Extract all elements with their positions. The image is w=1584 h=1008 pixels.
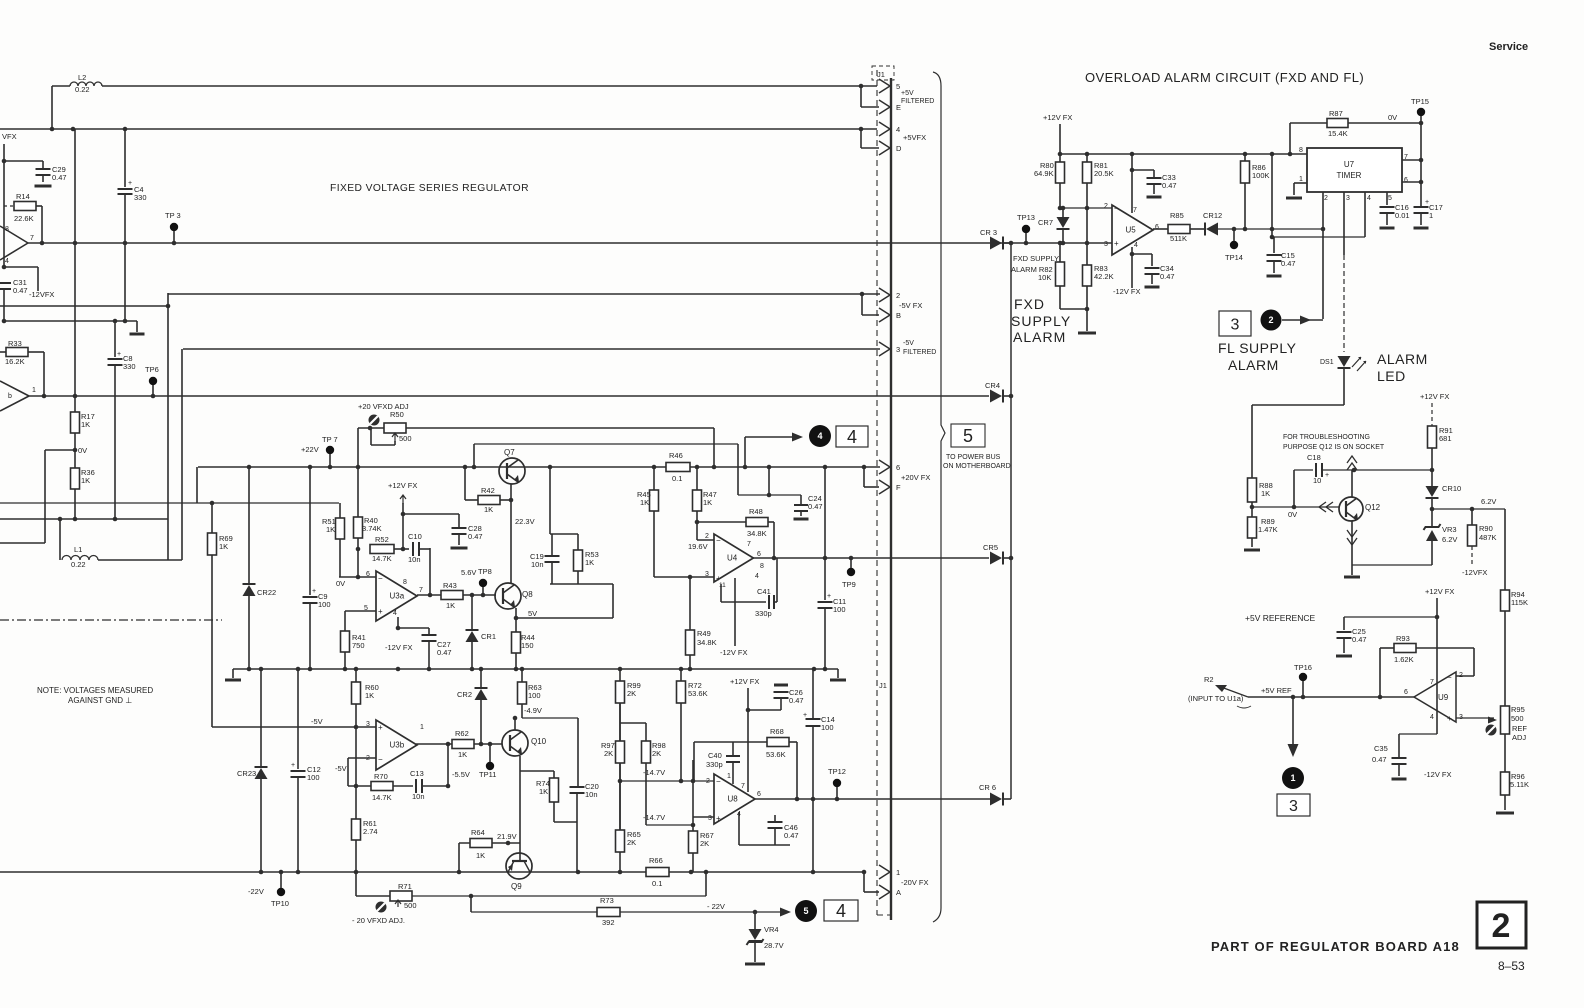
svg-text:5.11K: 5.11K [1510,780,1529,789]
svg-text:R85: R85 [1170,211,1184,220]
svg-text:-14.7V: -14.7V [643,768,665,777]
svg-text:U3b: U3b [390,741,405,750]
svg-text:4: 4 [5,258,9,265]
svg-text:−: − [716,777,721,786]
svg-text:0V: 0V [78,446,87,455]
svg-text:+5V REF: +5V REF [1261,686,1292,695]
svg-text:100: 100 [528,691,541,700]
svg-text:U4: U4 [727,554,738,563]
svg-text:U5: U5 [1126,226,1137,235]
svg-text:3: 3 [708,815,712,822]
svg-text:3: 3 [705,571,709,578]
svg-text:FXD SUPPLY: FXD SUPPLY [1013,254,1059,263]
svg-text:8–53: 8–53 [1498,959,1525,973]
svg-text:CR4: CR4 [985,381,1000,390]
svg-text:FOR TROUBLESHOOTING: FOR TROUBLESHOOTING [1283,434,1370,441]
svg-text:TP14: TP14 [1225,253,1243,262]
svg-text:0.47: 0.47 [789,696,804,705]
svg-text:Q8: Q8 [522,590,533,599]
svg-text:R87: R87 [1329,109,1343,118]
svg-text:TP15: TP15 [1411,97,1429,106]
svg-text:0.47: 0.47 [1281,259,1296,268]
svg-text:511K: 511K [1170,234,1187,243]
svg-text:+: + [291,762,295,769]
svg-text:CR5: CR5 [983,543,998,552]
svg-text:TP 7: TP 7 [322,435,338,444]
svg-text:1K: 1K [446,601,455,610]
svg-text:2: 2 [706,778,710,785]
svg-text:CR22: CR22 [257,588,276,597]
svg-text:- 22V: - 22V [707,902,725,911]
svg-text:19.6V: 19.6V [688,542,708,551]
svg-text:L1: L1 [74,545,82,554]
svg-text:+12V FX: +12V FX [1043,113,1072,122]
svg-text:−: − [1447,673,1452,682]
svg-text:330: 330 [123,362,136,371]
svg-text:0.47: 0.47 [1372,755,1387,764]
svg-text:115K: 115K [1511,598,1528,607]
svg-text:100: 100 [833,605,846,614]
svg-text:CR7: CR7 [1038,218,1053,227]
svg-text:DS1: DS1 [1320,359,1334,366]
svg-text:3: 3 [896,345,900,354]
svg-text:6.2V: 6.2V [1481,497,1496,506]
svg-text:5.6V: 5.6V [461,568,476,577]
svg-text:R2: R2 [1204,675,1214,684]
svg-text:1K: 1K [640,498,649,507]
svg-text:2K: 2K [627,689,636,698]
svg-text:-22V: -22V [248,887,264,896]
svg-text:2K: 2K [700,839,709,848]
svg-text:(INPUT TO U1a): (INPUT TO U1a) [1188,694,1244,703]
svg-text:F: F [896,483,901,492]
svg-text:330p: 330p [706,760,723,769]
svg-text:8: 8 [1299,147,1303,154]
svg-text:1K: 1K [326,525,335,534]
svg-text:3: 3 [366,721,370,728]
svg-text:1K: 1K [219,542,228,551]
svg-text:NOTE: VOLTAGES MEASURED: NOTE: VOLTAGES MEASURED [37,686,153,695]
svg-text:CR23: CR23 [237,769,256,778]
svg-text:TP 3: TP 3 [165,211,181,220]
svg-text:-12V FX: -12V FX [720,648,748,657]
svg-text:U8: U8 [728,795,739,804]
svg-text:VR4: VR4 [764,925,779,934]
svg-text:0.47: 0.47 [468,532,483,541]
svg-text:330p: 330p [755,609,772,618]
svg-text:R66: R66 [649,856,663,865]
svg-text:6.2V: 6.2V [1442,535,1457,544]
svg-text:R52: R52 [375,535,389,544]
svg-text:4: 4 [1134,242,1138,249]
svg-text:- 20 VFXD ADJ.: - 20 VFXD ADJ. [352,916,405,925]
svg-text:+12V FX: +12V FX [1420,392,1449,401]
svg-text:OVERLOAD ALARM CIRCUIT (FXD AN: OVERLOAD ALARM CIRCUIT (FXD AND FL) [1085,70,1364,85]
svg-text:TP10: TP10 [271,899,289,908]
svg-text:+: + [117,351,121,358]
svg-text:CR2: CR2 [457,690,472,699]
svg-text:6: 6 [896,463,900,472]
svg-text:3: 3 [1289,798,1298,815]
svg-text:J1: J1 [877,70,885,79]
svg-text:0.47: 0.47 [1162,181,1177,190]
svg-text:4: 4 [896,125,900,134]
svg-text:-20V FX: -20V FX [901,878,929,887]
svg-text:+5V REFERENCE: +5V REFERENCE [1245,613,1315,623]
svg-text:20.5K: 20.5K [1094,169,1114,178]
svg-text:2: 2 [896,291,900,300]
svg-text:0.47: 0.47 [52,173,67,182]
svg-text:1K: 1K [81,420,90,429]
svg-text:100: 100 [318,600,331,609]
svg-text:7: 7 [1430,679,1434,686]
svg-text:1K: 1K [81,476,90,485]
svg-text:7: 7 [1133,207,1137,214]
svg-text:5: 5 [963,426,973,446]
svg-text:Service: Service [1489,41,1528,53]
svg-text:ON MOTHERBOARD: ON MOTHERBOARD [943,463,1011,470]
svg-text:5: 5 [896,82,900,91]
svg-text:+22V: +22V [301,445,319,454]
svg-text:+12V FX: +12V FX [388,481,417,490]
svg-text:14.7K: 14.7K [372,793,392,802]
svg-text:C40: C40 [708,751,722,760]
svg-text:-12V FX: -12V FX [1113,287,1141,296]
svg-text:+: + [312,588,316,595]
svg-text:15.4K: 15.4K [1328,129,1348,138]
svg-text:-4.9V: -4.9V [524,706,542,715]
svg-text:22.6K: 22.6K [14,214,34,223]
svg-text:10: 10 [1313,476,1321,485]
svg-text:2K: 2K [627,838,636,847]
svg-text:VR3: VR3 [1442,525,1457,534]
svg-text:-12V FX: -12V FX [1424,770,1452,779]
svg-text:C41: C41 [757,587,771,596]
svg-text:1: 1 [1429,211,1433,220]
svg-text:REF: REF [1512,724,1527,733]
svg-text:7: 7 [419,587,423,594]
svg-text:2: 2 [1492,907,1511,945]
svg-text:150: 150 [521,641,534,650]
svg-text:34.8K: 34.8K [697,638,717,647]
svg-text:ADJ: ADJ [1512,733,1526,742]
svg-text:+20V FX: +20V FX [901,473,930,482]
svg-text:1.62K: 1.62K [1394,655,1414,664]
svg-text:6: 6 [1404,177,1408,184]
svg-text:6: 6 [1404,689,1408,696]
svg-text:4: 4 [836,901,846,921]
svg-text:22.3V: 22.3V [515,517,535,526]
svg-text:CR12: CR12 [1203,211,1222,220]
svg-text:1K: 1K [484,505,493,514]
svg-text:C18: C18 [1307,453,1321,462]
svg-text:4: 4 [755,573,759,580]
svg-text:+: + [378,607,383,616]
svg-text:4: 4 [817,431,822,441]
svg-text:TIMER: TIMER [1337,171,1362,180]
svg-text:CR10: CR10 [1442,484,1461,493]
svg-text:3.74K: 3.74K [362,524,382,533]
svg-text:2K: 2K [604,749,613,758]
svg-text:R14: R14 [16,192,30,201]
svg-text:U9: U9 [1438,693,1449,702]
svg-text:-14.7V: -14.7V [643,813,665,822]
svg-text:10n: 10n [408,555,421,564]
svg-text:14.7K: 14.7K [372,554,392,563]
svg-text:100K: 100K [1252,171,1270,180]
svg-text:FL SUPPLY: FL SUPPLY [1218,340,1297,356]
svg-text:0.47: 0.47 [13,286,28,295]
svg-text:53.6K: 53.6K [766,750,786,759]
svg-text:TP6: TP6 [145,365,159,374]
svg-text:R62: R62 [455,729,469,738]
svg-text:ALARM: ALARM [1013,329,1066,345]
svg-text:3: 3 [1346,195,1350,202]
svg-text:11: 11 [719,582,726,589]
svg-text:TP9: TP9 [842,580,856,589]
svg-text:7: 7 [741,783,745,790]
svg-text:0.47: 0.47 [1160,272,1175,281]
svg-text:100: 100 [307,773,320,782]
svg-text:750: 750 [352,641,365,650]
svg-text:1K: 1K [476,851,485,860]
svg-text:53.6K: 53.6K [688,689,708,698]
svg-text:1K: 1K [703,498,712,507]
svg-text:+: + [827,593,831,600]
svg-text:10n: 10n [585,790,598,799]
svg-text:-12V FX: -12V FX [385,643,413,652]
svg-text:500: 500 [399,434,412,443]
svg-text:ALARM: ALARM [1377,351,1428,367]
svg-text:−: − [378,755,383,764]
svg-text:TP12: TP12 [828,767,846,776]
svg-text:0.22: 0.22 [75,85,90,94]
svg-text:-12VFX: -12VFX [29,290,54,299]
svg-text:1: 1 [1290,773,1295,783]
svg-text:R43: R43 [443,581,457,590]
svg-text:+5VFX: +5VFX [903,133,926,142]
svg-text:-12VFX: -12VFX [1462,568,1487,577]
svg-text:CR 6: CR 6 [979,783,996,792]
svg-text:-5V: -5V [903,340,914,347]
svg-text:2: 2 [1104,203,1108,210]
svg-text:+12V FX: +12V FX [730,677,759,686]
svg-text:R46: R46 [669,451,683,460]
svg-text:5V: 5V [528,609,537,618]
svg-text:0.22: 0.22 [71,560,86,569]
svg-text:0.1: 0.1 [672,474,682,483]
svg-text:+12V FX: +12V FX [1425,587,1454,596]
svg-text:3: 3 [1231,316,1240,333]
svg-text:10n: 10n [531,560,544,569]
svg-text:0V: 0V [336,579,345,588]
svg-text:0.47: 0.47 [437,648,452,657]
svg-text:4: 4 [393,610,397,617]
svg-text:R95: R95 [1511,705,1525,714]
svg-text:−: − [378,574,383,583]
svg-text:330: 330 [134,193,147,202]
svg-text:A: A [896,888,901,897]
svg-text:FILTERED: FILTERED [901,98,934,105]
svg-text:7: 7 [747,541,751,548]
svg-text:R90: R90 [1479,524,1493,533]
svg-text:FIXED VOLTAGE SERIES REGULA: FIXED VOLTAGE SERIES REGULATOR [330,183,529,194]
svg-text:2.74: 2.74 [363,827,378,836]
svg-text:CR 3: CR 3 [980,228,997,237]
svg-text:6: 6 [757,551,761,558]
svg-text:2: 2 [1459,672,1463,679]
svg-text:R70: R70 [374,772,388,781]
svg-text:FILTERED: FILTERED [903,349,936,356]
svg-text:L2: L2 [78,73,86,82]
svg-text:+: + [378,723,383,732]
svg-text:B: B [896,311,901,320]
svg-text:R33: R33 [8,339,22,348]
svg-text:1K: 1K [458,750,467,759]
svg-text:28.7V: 28.7V [764,941,784,950]
svg-text:Q12: Q12 [1365,503,1381,512]
svg-text:3: 3 [1104,241,1108,248]
svg-text:-5.5V: -5.5V [452,770,470,779]
svg-text:2: 2 [1268,315,1273,325]
svg-text:PURPOSE Q12 IS ON SOCKET: PURPOSE Q12 IS ON SOCKET [1283,444,1385,451]
svg-text:+: + [1447,714,1452,723]
svg-text:4: 4 [847,427,857,447]
svg-text:1K: 1K [1261,489,1270,498]
svg-text:TP13: TP13 [1017,213,1035,222]
svg-text:6: 6 [757,791,761,798]
svg-text:R64: R64 [471,828,485,837]
svg-text:1: 1 [727,773,731,780]
svg-text:U3a: U3a [390,592,405,601]
svg-text:ALARM: ALARM [1228,357,1279,373]
svg-text:42.2K: 42.2K [1094,272,1114,281]
svg-text:R93: R93 [1396,634,1410,643]
svg-text:487K: 487K [1479,533,1497,542]
svg-text:R50: R50 [390,410,404,419]
svg-text:1: 1 [420,724,424,731]
svg-text:VFX: VFX [2,132,17,141]
svg-text:8: 8 [760,563,764,570]
svg-text:21.9V: 21.9V [497,832,517,841]
svg-text:1: 1 [1299,176,1303,183]
svg-text:0.47: 0.47 [784,831,799,840]
svg-text:J1: J1 [879,681,887,690]
svg-text:−: − [1114,204,1119,213]
svg-text:5: 5 [803,906,808,916]
svg-text:CR1: CR1 [481,632,496,641]
svg-text:5: 5 [1388,195,1392,202]
svg-text:8: 8 [403,579,407,586]
svg-text:+: + [1114,239,1119,248]
svg-text:+5V: +5V [901,90,914,97]
svg-text:100: 100 [821,723,834,732]
svg-text:500: 500 [404,901,417,910]
svg-text:7: 7 [30,235,34,242]
svg-text:R49: R49 [697,629,711,638]
svg-text:4: 4 [1430,714,1434,721]
svg-text:R68: R68 [770,727,784,736]
svg-text:Q9: Q9 [511,882,522,891]
svg-text:R71: R71 [398,882,412,891]
svg-text:C13: C13 [410,769,424,778]
svg-text:0V: 0V [1388,113,1397,122]
svg-text:392: 392 [602,918,615,927]
svg-text:-5V: -5V [335,764,347,773]
svg-text:-5V FX: -5V FX [899,301,922,310]
svg-text:FXD: FXD [1014,296,1045,312]
svg-text:0.1: 0.1 [652,879,662,888]
svg-text:8: 8 [5,226,9,233]
svg-text:1.47K: 1.47K [1258,525,1278,534]
svg-text:1K: 1K [539,787,548,796]
svg-text:LED: LED [1377,368,1406,384]
svg-text:D: D [896,144,902,153]
svg-text:R73: R73 [600,896,614,905]
svg-text:Q10: Q10 [531,737,547,746]
svg-text:16.2K: 16.2K [5,357,25,366]
svg-text:0.47: 0.47 [808,502,823,511]
svg-text:R42: R42 [481,486,495,495]
svg-text:2K: 2K [652,749,661,758]
svg-text:1K: 1K [365,691,374,700]
svg-text:TP11: TP11 [479,770,496,779]
svg-text:2: 2 [1324,195,1328,202]
svg-text:0.01: 0.01 [1395,211,1410,220]
svg-text:1: 1 [896,868,900,877]
svg-text:Q7: Q7 [504,448,515,457]
svg-text:64.9K: 64.9K [1034,169,1054,178]
svg-text:TP16: TP16 [1294,663,1312,672]
svg-text:+: + [128,180,132,187]
svg-text:6: 6 [1155,224,1159,231]
svg-text:0V: 0V [1288,510,1297,519]
svg-text:2: 2 [705,533,709,540]
svg-text:681: 681 [1439,434,1452,443]
svg-text:b: b [8,393,12,400]
svg-text:C10: C10 [408,532,422,541]
svg-text:TP8: TP8 [478,567,492,576]
svg-text:+: + [803,712,807,719]
svg-text:1: 1 [32,387,36,394]
svg-text:4: 4 [1367,195,1371,202]
svg-text:C35: C35 [1374,744,1388,753]
svg-text:TO POWER BUS: TO POWER BUS [946,454,1001,461]
svg-text:-5V: -5V [311,717,323,726]
svg-text:R48: R48 [749,507,763,516]
svg-text:PART OF REGULATOR BOARD A18: PART OF REGULATOR BOARD A18 [1211,939,1460,954]
svg-text:10K: 10K [1038,273,1051,282]
svg-text:SUPPLY: SUPPLY [1011,313,1071,329]
svg-text:500: 500 [1511,714,1524,723]
svg-text:0.47: 0.47 [1352,635,1367,644]
svg-text:10n: 10n [412,792,425,801]
svg-text:1K: 1K [585,558,594,567]
svg-text:34.8K: 34.8K [747,529,767,538]
svg-text:+: + [1325,472,1329,479]
svg-text:+: + [716,814,721,823]
svg-text:U7: U7 [1344,160,1355,169]
svg-text:AGAINST GND ⊥: AGAINST GND ⊥ [68,696,132,705]
